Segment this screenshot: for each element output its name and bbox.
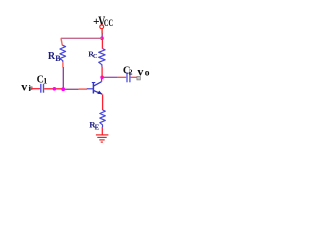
svg-text:CC: CC bbox=[104, 18, 113, 29]
wire node B purple segment bbox=[63, 88, 78, 90]
ground bbox=[96, 135, 109, 142]
wire C1 to node B bbox=[44, 88, 63, 90]
wire emitter down bbox=[102, 94, 104, 110]
wire top horizontal to RB bbox=[61, 37, 102, 39]
label vi bbox=[21, 79, 31, 93]
vo terminal square bbox=[137, 77, 140, 80]
resistor RB bbox=[60, 45, 66, 62]
node base dot 2 (RB junction) bbox=[61, 87, 65, 91]
svg-text:1: 1 bbox=[43, 76, 47, 85]
svg-text:v: v bbox=[137, 64, 143, 78]
Vcc terminal bbox=[100, 25, 104, 29]
wire vi to C1 bbox=[31, 88, 40, 90]
svg-text:E: E bbox=[95, 123, 100, 131]
capacitor C2 bbox=[126, 72, 128, 82]
capacitor C1 bbox=[40, 84, 42, 93]
resistor RC bbox=[99, 49, 105, 67]
label vo bbox=[137, 64, 149, 78]
node Vcc junction bbox=[100, 36, 104, 40]
wire RB bottom red bbox=[62, 62, 64, 67]
wire base red segment bbox=[79, 88, 87, 90]
svg-text:C: C bbox=[93, 53, 98, 60]
svg-text:2: 2 bbox=[129, 67, 133, 76]
vi terminal square bbox=[30, 87, 33, 90]
svg-text:v: v bbox=[21, 79, 27, 93]
wire C2 to vo terminal bbox=[131, 76, 137, 78]
wire base blue stub bbox=[87, 88, 94, 90]
label C2 bbox=[123, 65, 133, 76]
label +Vcc bbox=[93, 14, 113, 30]
label RB bbox=[48, 51, 61, 63]
label RE bbox=[89, 120, 99, 132]
svg-text:o: o bbox=[145, 69, 150, 79]
wire RE to ground bbox=[101, 127, 103, 135]
label RC bbox=[88, 50, 98, 60]
transistor Q1 bbox=[92, 82, 102, 95]
wire RB top vertical bbox=[61, 38, 62, 45]
resistor RE bbox=[100, 110, 106, 127]
wire RC top bbox=[101, 39, 103, 49]
node base dot 1 bbox=[53, 87, 57, 91]
wire to C2 (red part) bbox=[117, 76, 126, 78]
wire collector up bbox=[101, 77, 103, 82]
wire RB bottom purple bbox=[62, 67, 64, 89]
node collector junction bbox=[100, 76, 104, 80]
wire Vcc terminal to junction bbox=[101, 29, 103, 33]
wire collector junction to C2 (purple part) bbox=[103, 76, 117, 78]
label C1 bbox=[37, 74, 48, 85]
wire RC bottom bbox=[101, 67, 103, 78]
svg-text:B: B bbox=[55, 54, 61, 63]
transistor emitter arrow bbox=[97, 91, 102, 95]
